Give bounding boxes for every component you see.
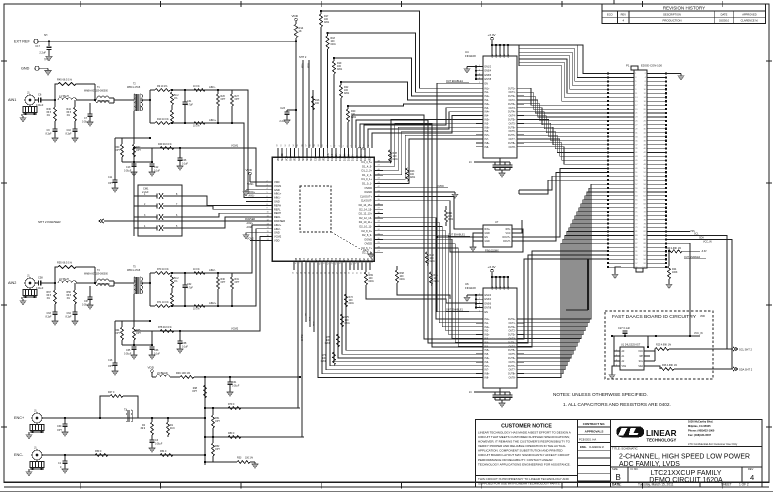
svg-text:61: 61	[322, 144, 324, 146]
svg-text:OUT5-: OUT5-	[508, 123, 515, 125]
svg-text:C61: C61	[232, 382, 237, 384]
svg-text:100: 100	[400, 276, 405, 278]
svg-text:MABA-007159-000000: MABA-007159-000000	[84, 90, 109, 93]
svg-text:OPT: OPT	[235, 282, 240, 284]
svg-text:OUT3+: OUT3+	[508, 335, 516, 337]
svg-text:50.2: 50.2	[174, 278, 179, 280]
svg-text:OPT: OPT	[115, 150, 120, 152]
svg-text:VDD: VDD	[504, 285, 506, 290]
svg-text:VDD: VDD	[492, 53, 494, 58]
svg-text:D2_12_13-: D2_12_13-	[359, 216, 372, 220]
svg-text:OPT: OPT	[215, 449, 220, 451]
svg-text:51: 51	[281, 144, 283, 146]
svg-text:HOWEVER, IT REMAINS THE CUSTOM: HOWEVER, IT REMAINS THE CUSTOMER'S RESPO…	[478, 440, 571, 444]
svg-text:OVDD: OVDD	[437, 186, 444, 188]
svg-text:REV: REV	[748, 467, 754, 471]
svg-text:C13: C13	[126, 167, 131, 169]
svg-text:4: 4	[479, 306, 480, 308]
svg-text:66.5: 66.5	[47, 112, 52, 114]
svg-text:C17: C17	[35, 44, 40, 48]
svg-text:C58: C58	[38, 276, 43, 280]
svg-text:R28: R28	[393, 153, 398, 155]
svg-text:35: 35	[369, 272, 371, 274]
svg-text:IN5+: IN5+	[485, 120, 491, 122]
svg-text:53: 53	[289, 144, 291, 146]
svg-text:100: 100	[326, 340, 331, 342]
svg-text:4: 4	[339, 145, 341, 146]
svg-text:1: 1	[616, 350, 617, 352]
svg-text:AIN1+: AIN1+	[274, 192, 282, 196]
svg-text:CLARENCE M.: CLARENCE M.	[589, 446, 605, 449]
svg-text:R29 4.99K 1%: R29 4.99K 1%	[666, 248, 681, 250]
svg-text:GND: GND	[485, 233, 491, 235]
svg-text:OPT: OPT	[108, 183, 113, 185]
svg-text:1630 McCarthy Blvd.: 1630 McCarthy Blvd.	[688, 420, 714, 424]
svg-text:ENC+: ENC+	[14, 416, 25, 420]
svg-text:OUT8+: OUT8+	[508, 143, 516, 145]
svg-text:R18: R18	[331, 38, 336, 40]
svg-text:VCC: VCC	[638, 351, 643, 353]
svg-text:LTC Confidential-For Customer: LTC Confidential-For Customer Use Only	[688, 442, 738, 446]
svg-text:OUT6-: OUT6-	[508, 131, 515, 133]
svg-text:VDD: VDD	[274, 180, 280, 184]
svg-text:IN7+: IN7+	[485, 366, 491, 368]
svg-text:FAST DAACS BOARD ID CIRCUITRY: FAST DAACS BOARD ID CIRCUITRY	[612, 314, 697, 320]
svg-text:OUT7-: OUT7-	[508, 139, 515, 141]
svg-text:33: 33	[361, 272, 363, 274]
svg-text:VDD: VDD	[148, 366, 155, 370]
svg-text:C12: C12	[154, 167, 159, 169]
svg-text:WBC1-1TLB: WBC1-1TLB	[127, 270, 141, 272]
svg-text:R25 4.99K 1%: R25 4.99K 1%	[656, 345, 671, 347]
svg-text:IN7+: IN7+	[485, 135, 491, 137]
svg-text:OUT2+: OUT2+	[508, 96, 516, 98]
svg-text:57: 57	[306, 144, 308, 146]
svg-text:EN3/4: EN3/4	[485, 71, 492, 73]
svg-text:FIN1108: FIN1108	[465, 54, 476, 58]
svg-text:APPLICATION. COMPONENT SUBSTI: APPLICATION. COMPONENT SUBSTITUTION AND …	[478, 449, 563, 453]
svg-text:OUT8-: OUT8-	[508, 378, 515, 380]
svg-text:D1_12+: D1_12+	[336, 152, 338, 161]
svg-text:OPT: OPT	[235, 99, 240, 101]
svg-text:C23: C23	[280, 106, 285, 110]
svg-text:55: 55	[297, 144, 299, 146]
svg-text:IN4+: IN4+	[485, 342, 491, 344]
svg-text:0201: 0201	[331, 44, 337, 46]
svg-text:C64: C64	[67, 313, 72, 315]
svg-text:AIN1-: AIN1-	[249, 195, 255, 198]
svg-text:R31: R31	[235, 279, 240, 281]
svg-text:L1 56uH: L1 56uH	[59, 94, 69, 98]
svg-text:VDD: VDD	[292, 14, 299, 18]
svg-text:IN3-: IN3-	[485, 108, 490, 110]
svg-text:OUT2-: OUT2-	[508, 331, 515, 333]
svg-text:PCB DES. HA: PCB DES. HA	[579, 437, 596, 441]
svg-text:C11: C11	[108, 177, 113, 179]
svg-text:0201: 0201	[344, 93, 350, 95]
svg-text:ECO: ECO	[607, 13, 613, 17]
svg-text:DATE: DATE	[721, 13, 728, 17]
svg-text:C16: C16	[108, 360, 113, 362]
svg-text:REFH: REFH	[274, 203, 281, 207]
svg-text:R77: R77	[322, 355, 327, 357]
svg-text:OVDD: OVDD	[365, 242, 373, 246]
svg-text:50: 50	[277, 144, 279, 146]
svg-text:SDO: SDO	[314, 321, 316, 326]
svg-text:OGND: OGND	[364, 237, 372, 241]
svg-text:R24: R24	[672, 269, 677, 271]
svg-text:0201: 0201	[321, 361, 327, 363]
svg-text:1%: 1%	[174, 98, 177, 100]
svg-text:VDD: VDD	[700, 316, 705, 318]
svg-text:Tuesday, March 15, 2011: Tuesday, March 15, 2011	[638, 483, 674, 487]
svg-text:VCC_IN: VCC_IN	[694, 333, 703, 335]
svg-text:100: 100	[410, 174, 415, 176]
svg-text:FIN1002MX: FIN1002MX	[485, 249, 499, 253]
svg-text:2: 2	[479, 298, 480, 300]
svg-text:AIN1+: AIN1+	[249, 191, 256, 194]
svg-text:VDD: VDD	[504, 53, 506, 58]
svg-text:AIN2+: AIN2+	[247, 222, 254, 225]
svg-text:OUT1+: OUT1+	[508, 319, 516, 321]
svg-text:VDD: VDD	[500, 53, 502, 58]
svg-text:OUT3-: OUT3-	[508, 339, 515, 341]
svg-text:VCC_IN: VCC_IN	[703, 242, 712, 244]
svg-text:IN2-: IN2-	[485, 331, 490, 333]
svg-text:AIN2-: AIN2-	[209, 268, 216, 272]
svg-text:D2_6_7-: D2_6_7-	[362, 250, 372, 254]
svg-text:66.5: 66.5	[47, 295, 52, 297]
svg-text:R60: R60	[115, 147, 120, 149]
svg-text:R69: R69	[369, 275, 374, 277]
svg-text:REFH: REFH	[274, 211, 281, 215]
svg-text:D1_0_1-: D1_0_1-	[362, 182, 372, 186]
svg-text:IN5-: IN5-	[485, 354, 490, 356]
svg-text:CLARENCE M.: CLARENCE M.	[741, 19, 759, 23]
svg-text:SCL: SCL	[694, 234, 699, 236]
svg-text:1 OF 2: 1 OF 2	[739, 483, 749, 487]
svg-text:EXT REF: EXT REF	[14, 40, 31, 44]
svg-text:3: 3	[479, 302, 480, 304]
svg-text:OUT5+: OUT5+	[508, 350, 516, 352]
svg-text:VCM1: VCM1	[247, 184, 254, 186]
svg-text:0201: 0201	[369, 281, 375, 283]
svg-text:2-CHANNEL, HIGH SPEED LOW POWE: 2-CHANNEL, HIGH SPEED LOW POWER	[619, 454, 750, 461]
svg-text:VDD: VDD	[246, 168, 253, 172]
svg-text:VDD: VDD	[295, 156, 297, 161]
svg-text:R41: R41	[448, 213, 453, 215]
svg-text:3: 3	[335, 145, 337, 146]
svg-text:2.2uF: 2.2uF	[39, 51, 46, 55]
svg-text:VDD: VDD	[496, 53, 498, 58]
svg-text:VDD: VDD	[324, 156, 326, 161]
svg-text:B: B	[616, 473, 621, 482]
svg-text:100: 100	[430, 258, 435, 260]
svg-text:VDD: VDD	[508, 53, 510, 58]
svg-text:OPT: OPT	[108, 366, 113, 368]
svg-text:AIN1+: AIN1+	[209, 118, 217, 122]
svg-text:THIS CIRCUIT IS PROPRIETARY TO: THIS CIRCUIT IS PROPRIETARY TO LINEAR TE…	[478, 477, 570, 481]
svg-text:D1_10-: D1_10-	[349, 153, 351, 161]
svg-text:0201: 0201	[325, 343, 331, 345]
svg-text:AIN1: AIN1	[8, 98, 16, 102]
svg-text:1. ALL CAPACITORS AND RESISTOR: 1. ALL CAPACITORS AND RESISTORS ARE 0402…	[563, 402, 671, 407]
svg-text:IN4-: IN4-	[485, 116, 490, 118]
svg-text:GND: GND	[274, 231, 280, 235]
svg-text:4: 4	[479, 78, 480, 80]
svg-text:AIN2-: AIN2-	[274, 227, 281, 231]
svg-text:R45 66.5 1%: R45 66.5 1%	[57, 78, 73, 82]
svg-text:16: 16	[293, 272, 295, 274]
svg-text:OUT1+: OUT1+	[508, 88, 516, 90]
svg-text:100: 100	[345, 320, 350, 322]
svg-text:R70 10 1%: R70 10 1%	[157, 269, 169, 271]
svg-text:1%: 1%	[67, 115, 70, 117]
svg-text:U7: U7	[495, 220, 499, 224]
svg-text:PRODUCTION: PRODUCTION	[662, 19, 681, 23]
svg-text:CIRCUIT BOARD LAYOUT MAY SIGNI: CIRCUIT BOARD LAYOUT MAY SIGNIFICANTLY A…	[478, 453, 570, 457]
svg-text:IN6+: IN6+	[485, 127, 491, 129]
svg-text:D2_8_9-: D2_8_9-	[362, 233, 372, 237]
svg-text:CLKOUT-: CLKOUT-	[361, 199, 372, 203]
svg-text:R66: R66	[434, 275, 439, 277]
svg-text:SH: SH	[44, 35, 48, 37]
svg-text:C27 0.1uF: C27 0.1uF	[618, 326, 630, 330]
svg-text:ENG.: ENG.	[580, 445, 587, 449]
svg-text:0201: 0201	[434, 281, 440, 283]
svg-text:5: 5	[479, 82, 480, 84]
svg-text:1%: 1%	[47, 115, 50, 117]
svg-text:3: 3	[616, 360, 617, 362]
svg-text:5: 5	[343, 145, 345, 146]
svg-text:0.01uF: 0.01uF	[36, 288, 44, 290]
svg-text:CLKOUT+: CLKOUT+	[360, 194, 372, 198]
svg-text:8.2pF: 8.2pF	[66, 317, 73, 319]
svg-text:1K: 1K	[299, 29, 302, 33]
svg-text:D1_10+: D1_10+	[344, 152, 346, 161]
svg-text:R71 10 1%: R71 10 1%	[157, 302, 169, 304]
svg-text:R64: R64	[115, 330, 120, 332]
svg-text:OUT6+: OUT6+	[508, 127, 516, 129]
svg-text:OPT: OPT	[136, 333, 141, 335]
svg-text:L6 56uH: L6 56uH	[59, 277, 69, 281]
svg-text:OUT2+: OUT2+	[508, 327, 516, 329]
svg-text:0201: 0201	[410, 177, 416, 179]
svg-text:100: 100	[315, 103, 320, 105]
svg-text:GND: GND	[274, 188, 280, 192]
svg-text:Fax: (408)434-0507: Fax: (408)434-0507	[688, 433, 711, 437]
svg-text:EN: EN	[485, 83, 489, 85]
svg-text:IN6+: IN6+	[485, 358, 491, 360]
svg-text:C6: C6	[38, 93, 42, 97]
svg-text:SDA: SDA	[638, 365, 643, 368]
svg-text:D2_6_7+: D2_6_7+	[361, 246, 372, 250]
svg-text:0.01uF: 0.01uF	[155, 444, 163, 446]
svg-text:D1_6+: D1_6+	[361, 154, 363, 161]
svg-text:REFL: REFL	[274, 215, 281, 219]
svg-text:SHT 2: SHT 2	[299, 55, 307, 59]
svg-text:EN: EN	[485, 237, 489, 239]
svg-text:IC NO.: IC NO.	[631, 467, 639, 471]
svg-text:AIN1-: AIN1-	[209, 85, 216, 89]
svg-text:R75: R75	[345, 317, 350, 319]
svg-text:3: 3	[479, 74, 480, 76]
svg-text:VCM1: VCM1	[274, 184, 282, 188]
svg-text:P1: P1	[626, 64, 630, 68]
svg-text:IN2+: IN2+	[485, 327, 491, 329]
svg-text:R20: R20	[351, 111, 356, 113]
svg-text:IN6-: IN6-	[485, 362, 490, 364]
svg-text:OPT: OPT	[221, 99, 226, 101]
svg-text:CM1: CM1	[143, 187, 149, 191]
svg-text:EN3/4: EN3/4	[485, 299, 492, 301]
svg-text:VDD: VDD	[492, 285, 494, 290]
svg-text:AIN2-: AIN2-	[247, 226, 253, 229]
svg-text:0201: 0201	[448, 219, 454, 221]
svg-text:0201: 0201	[337, 69, 343, 71]
svg-text:C10: C10	[67, 130, 72, 132]
svg-text:VSS: VSS	[622, 366, 627, 368]
svg-text:R49 49.9 1%: R49 49.9 1%	[158, 144, 172, 146]
svg-text:SDA: SDA	[306, 156, 309, 161]
svg-text:OUT ENABLE1: OUT ENABLE1	[448, 234, 466, 237]
svg-text:OPT: OPT	[215, 421, 220, 423]
svg-text:CUSTOMER NOTICE: CUSTOMER NOTICE	[501, 424, 552, 430]
svg-text:WBC1-1TLB: WBC1-1TLB	[127, 87, 141, 89]
svg-text:66.5: 66.5	[67, 112, 72, 114]
svg-text:REV: REV	[621, 13, 627, 17]
svg-text:1: 1	[479, 65, 480, 67]
svg-text:OUT7+: OUT7+	[508, 366, 516, 368]
svg-text:AIN2: AIN2	[8, 281, 16, 285]
svg-text:OGND: OGND	[364, 190, 372, 194]
svg-text:PAR/SER: PAR/SER	[245, 218, 255, 221]
svg-text:4: 4	[750, 473, 754, 482]
svg-text:100: 100	[448, 216, 453, 218]
svg-text:OUT8-: OUT8-	[508, 147, 515, 149]
svg-text:OUT1-: OUT1-	[508, 92, 515, 94]
svg-text:R9 10 1%: R9 10 1%	[157, 86, 167, 88]
svg-text:PERFORMANCE OR RELIABILITY.: PERFORMANCE OR RELIABILITY. CONTACT LINE…	[478, 458, 553, 462]
svg-text:SDA: SDA	[302, 63, 305, 68]
svg-text:AIN2+: AIN2+	[274, 223, 282, 227]
svg-text:31: 31	[353, 272, 355, 274]
svg-text:IN7-: IN7-	[485, 139, 490, 141]
svg-text:R55 66.5 1%: R55 66.5 1%	[57, 261, 73, 265]
svg-text:30: 30	[349, 272, 351, 274]
svg-text:AIN1-: AIN1-	[274, 196, 281, 200]
svg-text:FIN1108: FIN1108	[465, 286, 476, 290]
svg-text:GND: GND	[290, 156, 292, 161]
svg-text:R22: R22	[344, 87, 349, 89]
svg-text:DOUT+: DOUT+	[502, 237, 511, 239]
svg-text:R36: R36	[47, 109, 52, 111]
svg-text:IN1+: IN1+	[485, 319, 491, 321]
svg-text:VDD: VDD	[274, 239, 280, 243]
svg-text:1%: 1%	[67, 298, 70, 300]
svg-text:1%: 1%	[174, 281, 177, 283]
svg-text:RIN-: RIN-	[506, 229, 511, 231]
svg-text:0.01uF: 0.01uF	[36, 105, 44, 107]
svg-text:IN6-: IN6-	[485, 131, 490, 133]
svg-text:100: 100	[331, 41, 336, 43]
svg-text:D1_2_3+: D1_2_3+	[361, 169, 372, 173]
svg-text:SCL SHT 2: SCL SHT 2	[739, 348, 752, 352]
svg-text:TECHNOLOGY APPLICATIONS ENGINE: TECHNOLOGY APPLICATIONS ENGINEERING FOR …	[478, 462, 571, 466]
svg-text:CONTRACT NO.: CONTRACT NO.	[583, 422, 606, 426]
svg-text:R16: R16	[315, 100, 320, 102]
svg-text:8.2pF: 8.2pF	[46, 134, 53, 136]
svg-text:D2_12_13+: D2_12_13+	[359, 212, 373, 216]
svg-text:OUT4-: OUT4-	[508, 346, 515, 348]
svg-text:0201: 0201	[393, 159, 399, 161]
svg-text:EDGE-CON-100: EDGE-CON-100	[641, 64, 662, 68]
svg-text:OVDD: OVDD	[365, 186, 373, 190]
svg-text:100: 100	[324, 19, 329, 21]
svg-text:GND: GND	[21, 66, 30, 70]
svg-text:SCK: SCK	[311, 156, 313, 161]
svg-text:PAR/SER: PAR/SER	[274, 219, 285, 223]
svg-text:Milpitas, CA 95035: Milpitas, CA 95035	[688, 424, 711, 428]
svg-text:2: 2	[616, 355, 617, 357]
svg-text:1%: 1%	[47, 298, 50, 300]
svg-text:EN1/2: EN1/2	[485, 67, 492, 69]
svg-text:R42: R42	[430, 255, 435, 257]
svg-text:R26: R26	[221, 96, 226, 98]
svg-text:0.1uF: 0.1uF	[182, 164, 189, 166]
svg-text:D1_14-: D1_14-	[332, 153, 334, 161]
svg-text:R10 10 1%: R10 10 1%	[157, 119, 169, 121]
svg-text:IN3+: IN3+	[485, 104, 491, 106]
svg-text:5: 5	[479, 310, 480, 312]
svg-text:VCM: VCM	[286, 156, 288, 161]
svg-text:DESCRIPTION: DESCRIPTION	[663, 13, 681, 17]
svg-text:REVISION HISTORY: REVISION HISTORY	[663, 6, 705, 11]
svg-text:C26: C26	[182, 160, 187, 162]
svg-text:EN1/2: EN1/2	[485, 295, 492, 297]
svg-text:50.2: 50.2	[174, 95, 179, 97]
svg-text:R56: R56	[67, 292, 72, 294]
svg-text:66.5: 66.5	[67, 295, 72, 297]
svg-text:OPT: OPT	[136, 150, 141, 152]
svg-text:IN5-: IN5-	[485, 123, 490, 125]
svg-text:10 1%: 10 1%	[193, 309, 200, 311]
svg-text:R44: R44	[67, 109, 72, 111]
svg-text:VERIFY PROPER AND RELIABLE OPE: VERIFY PROPER AND RELIABLE OPERATION IN …	[478, 444, 566, 448]
svg-text:DATE:: DATE:	[612, 483, 621, 487]
svg-text:R79 0: R79 0	[228, 404, 235, 406]
svg-text:GND: GND	[320, 156, 322, 161]
svg-text:D1_0_1+: D1_0_1+	[361, 177, 372, 181]
svg-text:OPT: OPT	[192, 391, 197, 393]
svg-text:DOUT-: DOUT-	[503, 241, 511, 243]
svg-text:SCL: SCL	[639, 361, 644, 363]
svg-text:100: 100	[322, 358, 327, 360]
svg-text:R78 49.9 1%: R78 49.9 1%	[158, 327, 172, 329]
svg-text:D2_10_11+: D2_10_11+	[359, 220, 373, 224]
svg-text:EN5/6: EN5/6	[485, 303, 492, 305]
svg-text:100: 100	[337, 66, 342, 68]
svg-text:IN1+: IN1+	[485, 88, 491, 90]
svg-text:EN: EN	[485, 312, 489, 314]
svg-text:OUT2-: OUT2-	[508, 100, 515, 102]
svg-text:C65: C65	[126, 350, 131, 352]
svg-text:R80 0: R80 0	[228, 433, 235, 435]
svg-text:IN8-: IN8-	[485, 378, 490, 380]
svg-text:AIN2+: AIN2+	[209, 301, 217, 305]
svg-text:VDD: VDD	[278, 156, 280, 161]
svg-text:NOTES: UNLESS OTHERWISE SPECIF: NOTES: UNLESS OTHERWISE SPECIFIED.	[553, 392, 648, 397]
